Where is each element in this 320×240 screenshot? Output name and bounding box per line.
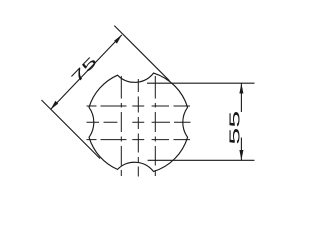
vertical centerline right x=155.3 xyxy=(154,76,156,176)
vertical centerline middle x=138.3 xyxy=(137,79,139,177)
dimension line 75 xyxy=(51,35,122,110)
horizontal centerline top y=106 xyxy=(87,105,191,107)
arrowhead bottom xyxy=(239,150,243,160)
dimension line 55 upper segment xyxy=(240,83,242,112)
svg-text:55: 55 xyxy=(227,111,244,145)
extension line upper-right xyxy=(114,26,169,81)
horizontal centerline bottom y=139.6 xyxy=(87,139,191,141)
arrowhead lower xyxy=(51,101,59,110)
arrowhead top xyxy=(239,83,243,93)
horizontal centerline middle y=122.3 xyxy=(87,121,191,123)
extension line top xyxy=(147,82,255,84)
arrowhead upper xyxy=(114,35,122,44)
dimension 75 (diagonal) xyxy=(42,26,170,159)
dimension 55 (vertical, right) xyxy=(147,83,255,160)
extension line lower-left xyxy=(42,100,101,159)
extension line bottom xyxy=(148,159,255,161)
vertical centerline left x=121.3 xyxy=(120,76,122,176)
profile outline xyxy=(89,73,188,171)
dimension line 55 lower segment xyxy=(240,138,242,161)
dashed centerlines xyxy=(87,76,191,177)
